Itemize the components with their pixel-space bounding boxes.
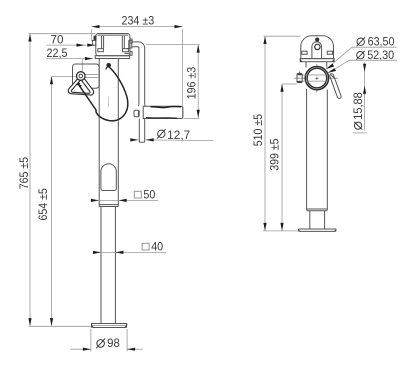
svg-text:399 ±5: 399 ±5 [268, 138, 282, 171]
svg-text:654 ±5: 654 ±5 [36, 188, 50, 221]
svg-text:765 ±5: 765 ±5 [17, 157, 31, 190]
svg-text:22,5: 22,5 [47, 46, 68, 60]
svg-text:98: 98 [107, 336, 120, 350]
svg-text:40: 40 [151, 240, 163, 254]
svg-text:15,88: 15,88 [351, 92, 365, 120]
svg-text:70: 70 [51, 32, 64, 46]
svg-text:12,7: 12,7 [167, 128, 190, 142]
svg-text:63,50: 63,50 [368, 35, 395, 49]
svg-text:196 ±3: 196 ±3 [184, 66, 198, 99]
svg-text:50: 50 [143, 188, 155, 202]
svg-text:234 ±3: 234 ±3 [122, 14, 155, 28]
svg-text:510 ±5: 510 ±5 [251, 114, 265, 147]
